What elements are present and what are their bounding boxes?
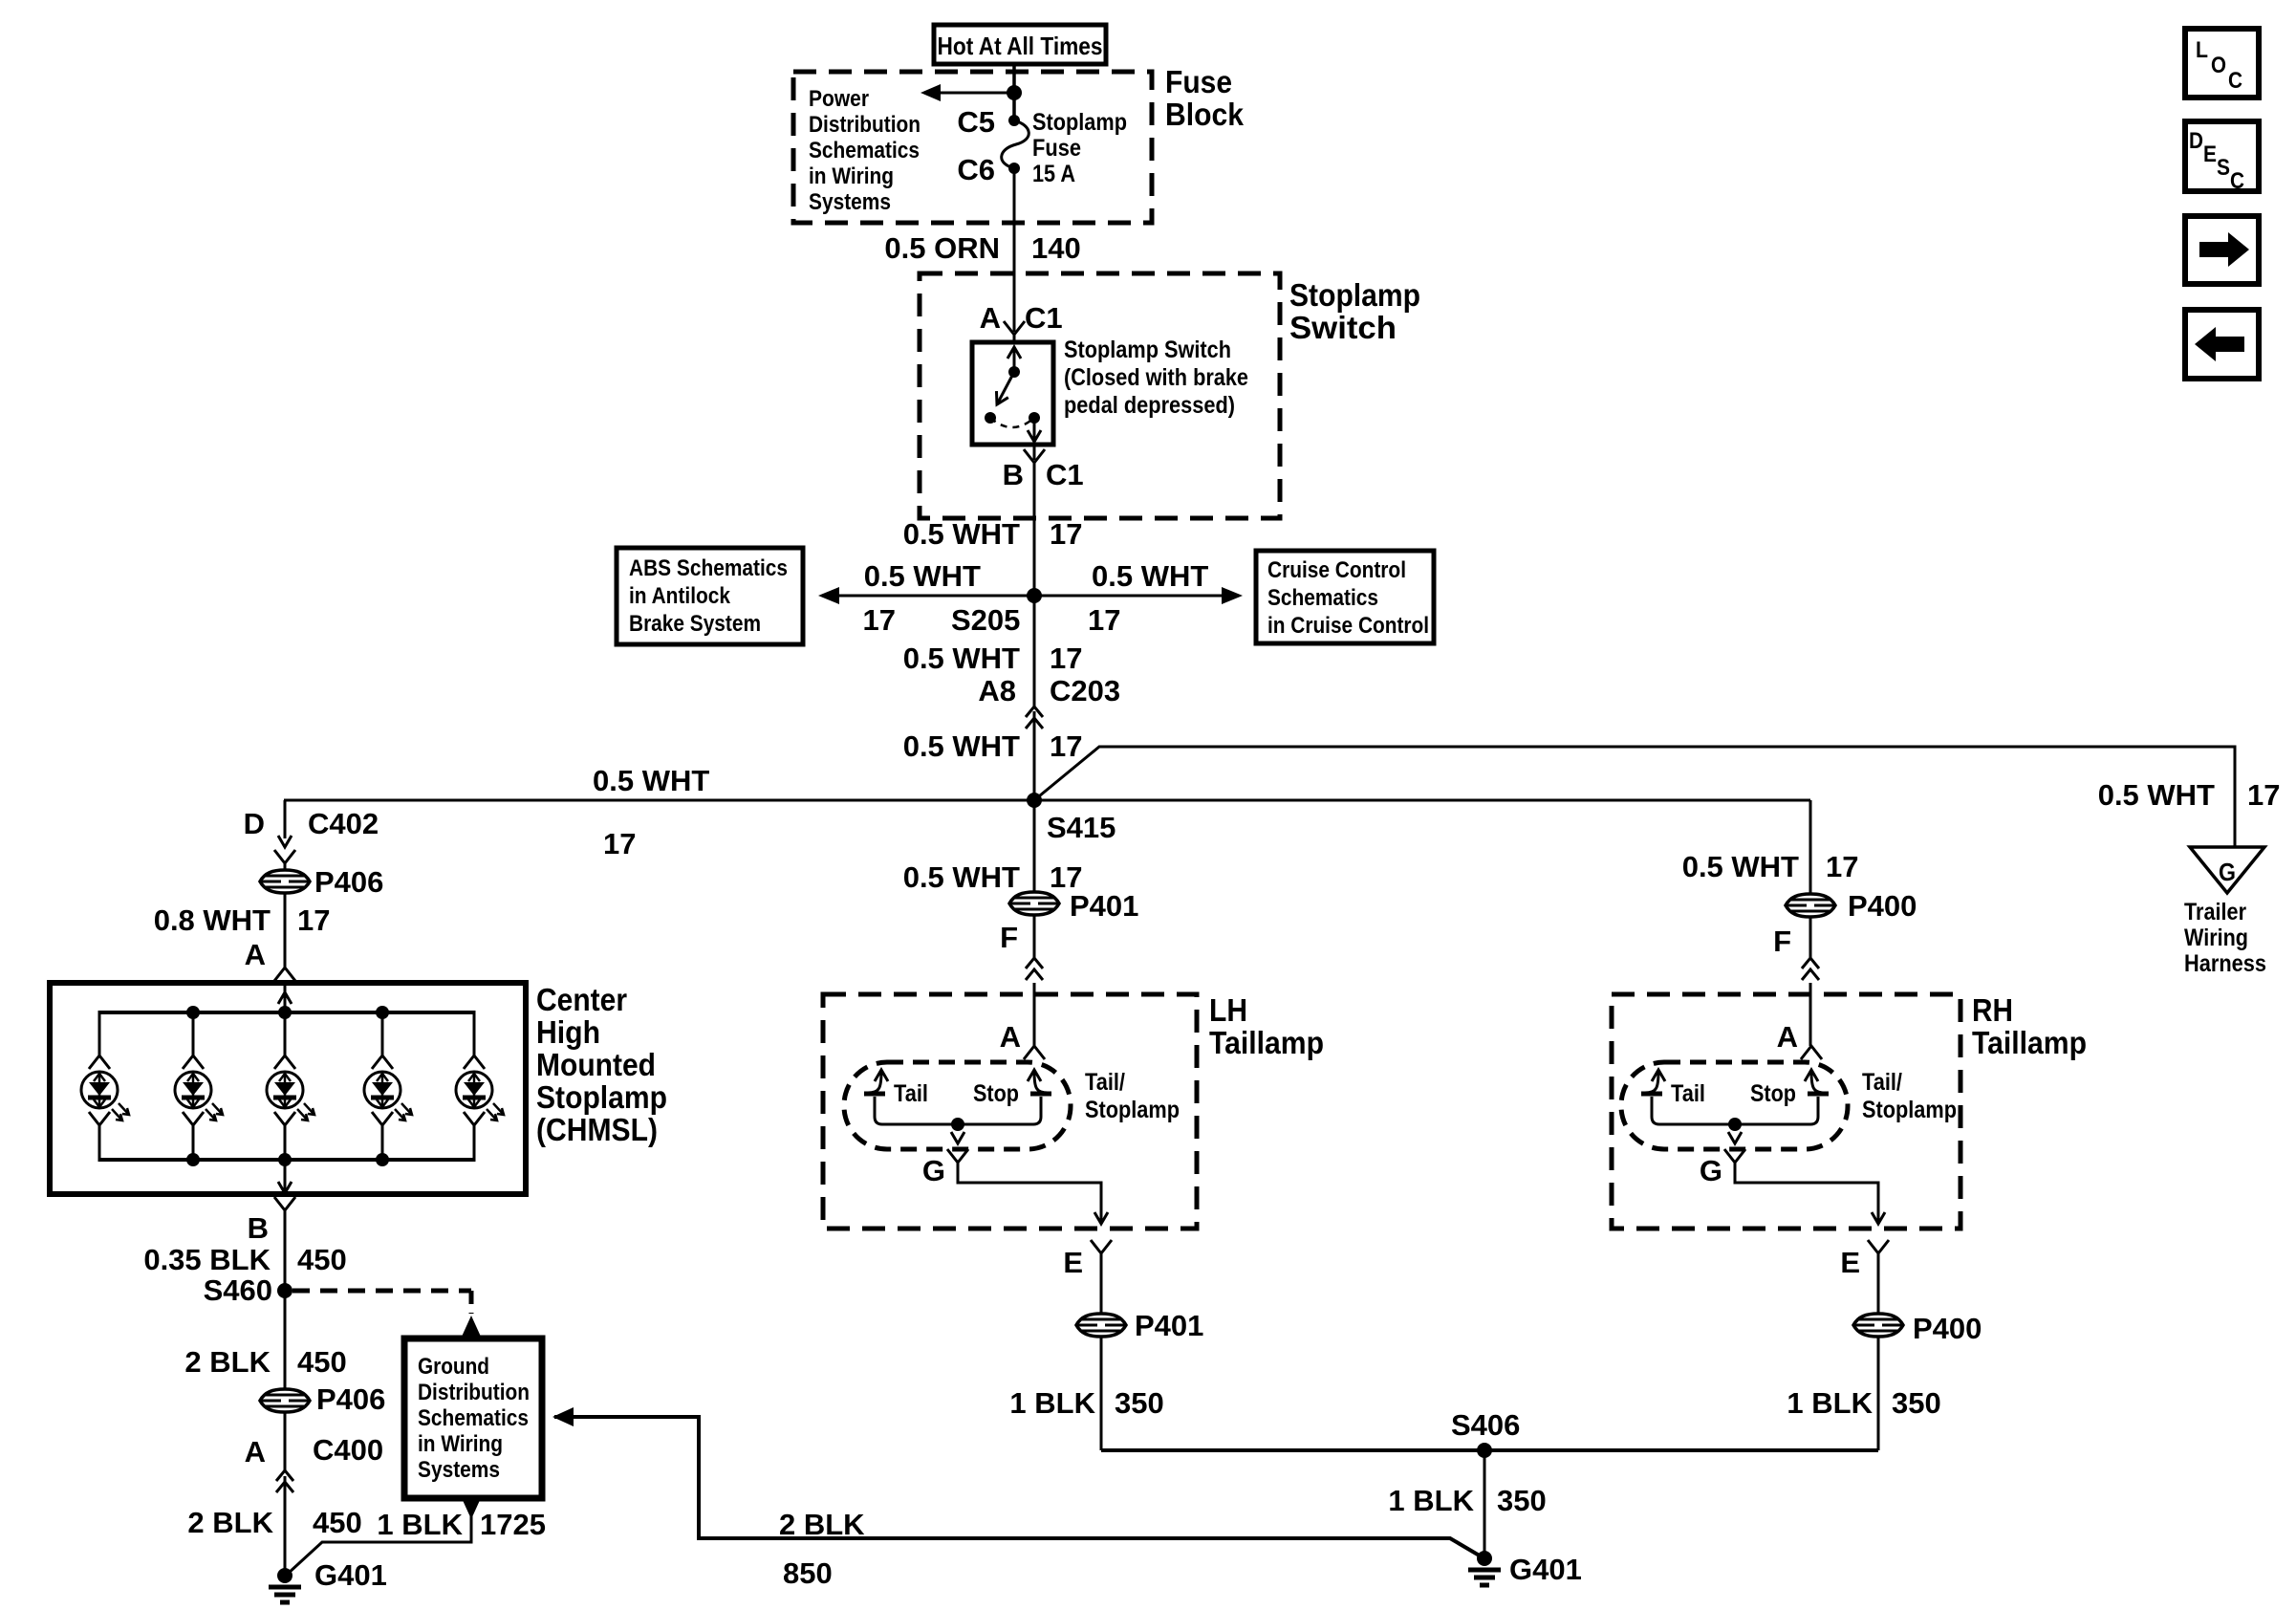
wire 0.5 WHT 17 from S205 to C203 — [903, 596, 1083, 707]
svg-text:17: 17 — [1050, 642, 1082, 675]
switch contact arm and contacts — [985, 347, 1041, 442]
RH taillamp dashed box — [1612, 994, 1960, 1229]
svg-text:Brake System: Brake System — [629, 611, 761, 637]
svg-text:0.8 WHT: 0.8 WHT — [154, 903, 271, 937]
svg-text:ABS Schematics: ABS Schematics — [629, 555, 788, 581]
svg-text:0.5 WHT: 0.5 WHT — [1682, 850, 1799, 883]
CHMSL LED branch 1 — [81, 1011, 129, 1162]
ground G401 right — [1468, 1551, 1582, 1586]
svg-text:E: E — [2203, 141, 2217, 167]
svg-text:Taillamp: Taillamp — [1972, 1025, 2087, 1060]
svg-text:A: A — [245, 1435, 266, 1469]
svg-text:S415: S415 — [1047, 811, 1116, 844]
svg-text:P400: P400 — [1913, 1312, 1982, 1345]
svg-text:C1: C1 — [1046, 458, 1084, 491]
svg-text:Power: Power — [809, 86, 869, 112]
svg-text:C402: C402 — [308, 807, 379, 840]
ground G401 left — [269, 1558, 387, 1602]
tail stop bulb — [844, 1062, 1071, 1149]
off-page connector G trailer wiring harness — [2184, 847, 2266, 977]
wire arrow to ABS schematics — [818, 559, 1034, 637]
connector pin F into LH taillamp — [1000, 915, 1043, 1046]
wire E to grommet — [1100, 1253, 1103, 1314]
svg-text:G401: G401 — [314, 1558, 387, 1592]
svg-text:17: 17 — [1826, 850, 1858, 883]
svg-text:pedal depressed): pedal depressed) — [1064, 392, 1235, 419]
svg-text:17: 17 — [297, 903, 330, 937]
svg-text:Schematics: Schematics — [809, 138, 920, 163]
svg-text:Wiring: Wiring — [2184, 925, 2248, 951]
wire arrow to cruise control — [1034, 559, 1243, 637]
taillamp assembly RH — [1621, 1020, 1957, 1450]
svg-text:B: B — [1003, 458, 1024, 491]
svg-text:(Closed with brake: (Closed with brake — [1064, 364, 1248, 391]
svg-text:Schematics: Schematics — [418, 1405, 529, 1431]
svg-text:17: 17 — [1088, 603, 1120, 637]
splice S460 — [277, 1283, 292, 1298]
CHMSL box — [50, 983, 526, 1194]
wire 0.5 WHT 17 down to RH taillamp — [1682, 800, 1859, 894]
svg-text:C: C — [2230, 168, 2244, 194]
svg-text:450: 450 — [297, 1345, 347, 1379]
fuse terminal C6 — [1008, 163, 1020, 174]
svg-text:Mounted: Mounted — [536, 1047, 656, 1082]
wire 2 BLK 450 from S460 to P406 — [184, 1291, 346, 1390]
fuse terminal C5 — [1008, 115, 1020, 126]
svg-text:Ground: Ground — [418, 1354, 489, 1380]
svg-text:17: 17 — [1050, 517, 1082, 551]
svg-text:D: D — [244, 807, 265, 840]
svg-text:1 BLK: 1 BLK — [1009, 1386, 1095, 1420]
svg-text:17: 17 — [603, 827, 636, 860]
svg-text:450: 450 — [313, 1506, 362, 1539]
CHMSL LED branch 3 — [267, 1006, 314, 1166]
svg-text:1 BLK: 1 BLK — [1388, 1484, 1474, 1517]
wire 0.5 WHT 17 from C203 to S415 — [903, 711, 1083, 800]
wire branch to trailer harness — [1034, 747, 2280, 847]
svg-text:S205: S205 — [951, 603, 1020, 637]
svg-text:1725: 1725 — [480, 1508, 546, 1541]
icon arrow right — [2185, 216, 2259, 284]
svg-text:RH: RH — [1972, 992, 2013, 1028]
svg-text:0.5 WHT: 0.5 WHT — [903, 729, 1020, 763]
svg-text:E: E — [1063, 1246, 1083, 1279]
wire 2 BLK 850 from ground note to G401 right — [552, 1407, 1483, 1590]
svg-text:A: A — [245, 938, 266, 971]
CHMSL top bus — [99, 1011, 474, 1014]
svg-text:D: D — [2189, 128, 2203, 154]
LH taillamp dashed box — [823, 994, 1197, 1229]
svg-text:1 BLK: 1 BLK — [377, 1508, 463, 1541]
svg-text:0.5 WHT: 0.5 WHT — [1092, 559, 1208, 593]
svg-text:C203: C203 — [1050, 674, 1120, 707]
note Stoplamp Switch (Closed with brake pedal depressed) — [1064, 337, 1248, 419]
wire 0.5 WHT 17 from switch to S205 — [903, 463, 1083, 596]
svg-text:(CHMSL): (CHMSL) — [536, 1112, 658, 1147]
svg-text:Stoplamp: Stoplamp — [536, 1079, 667, 1115]
connector pin A C1 — [980, 301, 1063, 343]
svg-text:Stop: Stop — [973, 1080, 1019, 1107]
bulb pin G — [947, 1149, 968, 1163]
svg-text:in Wiring: in Wiring — [418, 1431, 503, 1457]
wire 1 BLK 350 from S406 to G401 — [1388, 1450, 1546, 1558]
switch inner box — [972, 342, 1053, 445]
svg-text:C400: C400 — [313, 1433, 383, 1467]
svg-text:0.5 WHT: 0.5 WHT — [903, 517, 1020, 551]
svg-text:L: L — [2196, 37, 2208, 63]
wire 0.35 BLK 450 to S460 — [143, 1210, 346, 1291]
svg-text:Schematics: Schematics — [1267, 585, 1378, 611]
CHMSL exit wire pin B — [248, 1160, 295, 1245]
svg-text:in Antilock: in Antilock — [629, 583, 731, 609]
svg-text:P406: P406 — [316, 1382, 385, 1416]
main horizontal bus through S415 — [284, 764, 1810, 860]
svg-text:Stoplamp Switch: Stoplamp Switch — [1064, 337, 1231, 363]
svg-text:C: C — [2228, 68, 2242, 94]
svg-text:Stoplamp: Stoplamp — [1085, 1097, 1180, 1123]
note ABS Schematics in Antilock Brake System — [617, 548, 803, 644]
svg-text:Taillamp: Taillamp — [1209, 1025, 1324, 1060]
svg-text:in Cruise Control: in Cruise Control — [1267, 613, 1429, 639]
CHMSL bottom bus — [99, 1158, 474, 1162]
connector pin F into RH taillamp — [1773, 917, 1819, 1046]
svg-text:B: B — [248, 1211, 269, 1245]
wire from Hot At All Times into fuse block — [1012, 64, 1016, 120]
label RH Taillamp — [1972, 992, 2087, 1060]
svg-text:0.5 WHT: 0.5 WHT — [864, 559, 981, 593]
svg-text:A: A — [980, 301, 1001, 335]
note Cruise Control Schematics in Cruise Control — [1256, 551, 1434, 643]
svg-text:350: 350 — [1115, 1386, 1164, 1420]
wire 1 BLK 350 to bus — [1100, 1337, 1103, 1450]
note Power Distribution Schematics in Wiring Systems — [809, 86, 921, 215]
svg-text:140: 140 — [1031, 231, 1081, 265]
svg-text:P401: P401 — [1135, 1309, 1203, 1342]
svg-text:G: G — [2219, 858, 2236, 886]
svg-text:A8: A8 — [978, 674, 1016, 707]
dashed wire from S460 to ground distribution note — [292, 1291, 481, 1337]
CHMSL LED branch 2 — [175, 1006, 223, 1166]
grommet P406 lower — [260, 1382, 385, 1416]
svg-text:Trailer: Trailer — [2184, 899, 2246, 925]
label Center High Mounted Stoplamp (CHMSL) — [536, 982, 667, 1147]
svg-text:G: G — [922, 1154, 945, 1187]
wire 2 BLK 450 to G401 — [187, 1476, 361, 1576]
svg-text:Stoplamp: Stoplamp — [1032, 109, 1127, 136]
connector pin D C402 — [244, 800, 379, 863]
svg-text:Stoplamp: Stoplamp — [1289, 277, 1420, 313]
wire 0.8 WHT 17 to CHMSL pin A — [154, 893, 331, 981]
CHMSL LED branch 4 — [364, 1006, 412, 1166]
wire 0.5 ORN 140 from fuse to stoplamp switch — [884, 168, 1080, 332]
svg-text:P401: P401 — [1070, 889, 1138, 923]
wire entry into CHMSL — [278, 983, 292, 1012]
svg-text:F: F — [1000, 921, 1018, 954]
icon arrow left — [2185, 310, 2259, 379]
icon DESC — [2185, 121, 2259, 194]
svg-text:Hot At All Times: Hot At All Times — [938, 32, 1103, 60]
svg-text:0.35 BLK: 0.35 BLK — [143, 1243, 271, 1276]
CHMSL LED branch 5 — [456, 1011, 504, 1162]
fuse element Stoplamp Fuse 15 A — [1002, 120, 1029, 168]
label Fuse Block — [1165, 64, 1245, 132]
svg-text:S: S — [2217, 155, 2230, 181]
svg-text:Block: Block — [1165, 97, 1245, 132]
svg-text:0.5 WHT: 0.5 WHT — [903, 860, 1020, 894]
svg-text:Tail/: Tail/ — [1085, 1069, 1125, 1096]
grommet P400 — [1786, 889, 1917, 923]
ground bus from LH to RH taillamp — [1101, 1448, 1878, 1452]
grommet on ground wire — [1076, 1314, 1126, 1337]
note Ground Distribution Schematics in Wiring Systems — [404, 1338, 542, 1498]
svg-text:Cruise Control: Cruise Control — [1267, 557, 1406, 583]
svg-text:High: High — [536, 1014, 600, 1050]
svg-text:Distribution: Distribution — [809, 112, 921, 138]
svg-text:F: F — [1773, 925, 1791, 958]
svg-text:0.5 WHT: 0.5 WHT — [903, 642, 1020, 675]
svg-text:Harness: Harness — [2184, 950, 2266, 977]
svg-text:A: A — [1000, 1020, 1021, 1054]
svg-text:C5: C5 — [957, 105, 995, 139]
svg-text:P400: P400 — [1848, 889, 1917, 923]
svg-text:17: 17 — [2247, 778, 2280, 812]
svg-text:2 BLK: 2 BLK — [779, 1508, 865, 1541]
svg-text:G401: G401 — [1509, 1553, 1582, 1586]
connector A8 C203 — [978, 674, 1120, 729]
svg-text:15 A: 15 A — [1032, 161, 1075, 187]
splice S415 — [1027, 793, 1042, 808]
svg-text:C1: C1 — [1025, 301, 1063, 335]
svg-text:2 BLK: 2 BLK — [187, 1506, 273, 1539]
fuse block box — [793, 72, 1152, 223]
connector pin E — [1091, 1240, 1112, 1253]
svg-text:Fuse: Fuse — [1032, 135, 1081, 162]
junction in fuse block — [1007, 85, 1022, 100]
svg-text:S460: S460 — [204, 1273, 272, 1307]
grommet P406 — [260, 863, 383, 899]
svg-text:17: 17 — [863, 603, 896, 637]
wire 0.5 WHT 17 from S415 to P401 — [903, 800, 1083, 894]
connector pin B C1 — [1003, 445, 1084, 491]
label Hot At All Times — [934, 25, 1106, 64]
icon LOC — [2185, 29, 2259, 98]
label LH Taillamp — [1209, 992, 1324, 1060]
grommet P401 — [1009, 889, 1138, 923]
svg-text:Center: Center — [536, 982, 627, 1017]
svg-text:Distribution: Distribution — [418, 1380, 530, 1405]
wire from G to taillamp pin E — [958, 1163, 1101, 1223]
svg-text:Systems: Systems — [809, 189, 891, 215]
svg-text:Fuse: Fuse — [1165, 64, 1232, 99]
svg-text:0.5 ORN: 0.5 ORN — [884, 231, 1000, 265]
svg-text:O: O — [2211, 53, 2226, 78]
svg-text:850: 850 — [783, 1556, 833, 1590]
connector pin A of taillamp — [1024, 1046, 1045, 1059]
stoplamp switch dashed box — [920, 273, 1280, 518]
svg-text:450: 450 — [297, 1243, 347, 1276]
splice S205 — [1027, 588, 1042, 603]
splice S406 — [1451, 1408, 1520, 1458]
svg-text:in Wiring: in Wiring — [809, 163, 894, 189]
svg-text:0.5 WHT: 0.5 WHT — [2098, 778, 2215, 812]
taillamp assembly LH — [844, 1020, 1180, 1450]
wire arrow to power distribution — [921, 84, 1014, 101]
svg-text:LH: LH — [1209, 992, 1247, 1028]
svg-text:C6: C6 — [957, 153, 995, 186]
svg-text:0.5 WHT: 0.5 WHT — [593, 764, 709, 797]
svg-text:Tail: Tail — [894, 1080, 928, 1107]
svg-text:P406: P406 — [314, 865, 383, 899]
svg-text:S406: S406 — [1451, 1408, 1520, 1442]
label Stoplamp Switch — [1289, 277, 1420, 345]
svg-text:17: 17 — [1050, 729, 1082, 763]
svg-text:2 BLK: 2 BLK — [184, 1345, 271, 1379]
connector pin A C400 — [245, 1412, 384, 1492]
svg-text:Systems: Systems — [418, 1457, 500, 1483]
svg-text:Switch: Switch — [1289, 310, 1397, 345]
svg-text:350: 350 — [1497, 1484, 1547, 1517]
wire 1 BLK 1725 from ground note to G401 — [288, 1498, 546, 1574]
